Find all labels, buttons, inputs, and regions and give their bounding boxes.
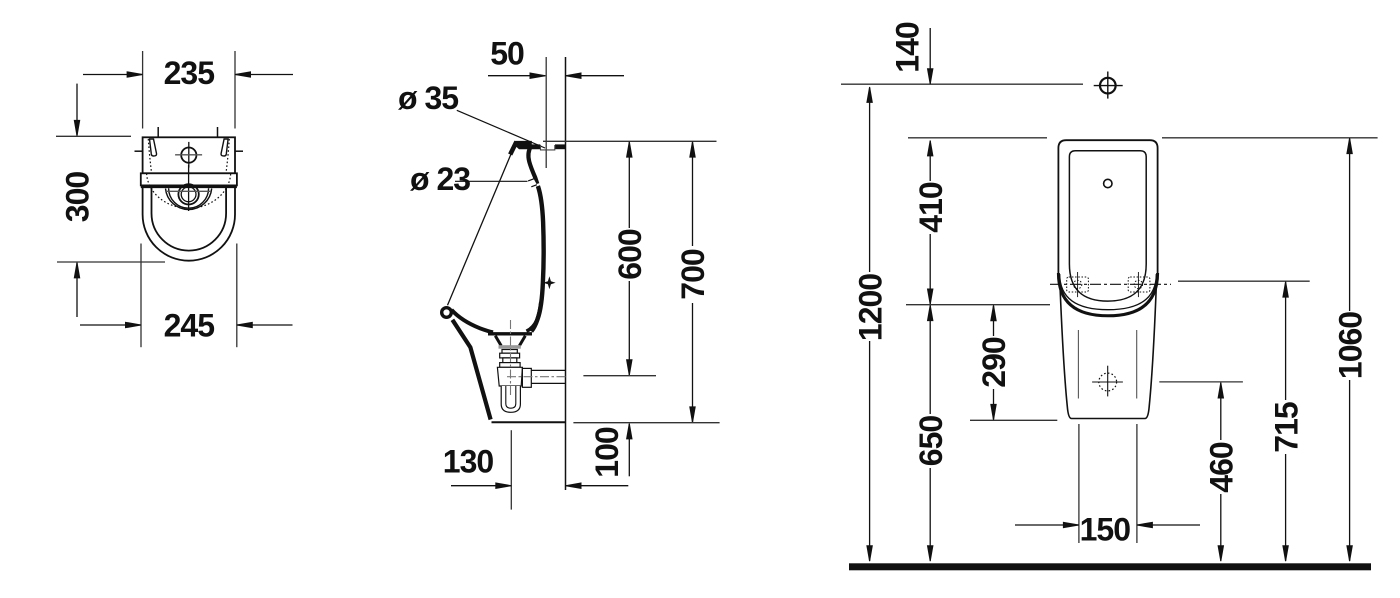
front lip curl xyxy=(442,308,452,318)
leader ø23 xyxy=(455,180,528,182)
inlet circle front xyxy=(1104,179,1112,187)
dim 460 line top + arrow xyxy=(1220,383,1222,440)
dim 130 line left + arrow xyxy=(451,485,511,487)
drain funnel right xyxy=(519,336,525,346)
top view drain outer arc 1 xyxy=(166,189,212,210)
dim 460 ext line xyxy=(1159,381,1243,383)
top reference line xyxy=(543,140,717,142)
hole ø23 outline xyxy=(528,179,537,187)
svg-text:100: 100 xyxy=(589,427,625,478)
hole ø23 white gap xyxy=(528,179,537,187)
dim 410 line top + arrow xyxy=(929,141,931,181)
svg-text:130: 130 xyxy=(443,444,494,480)
top view tank tick left xyxy=(157,127,159,145)
top view drain cross v xyxy=(188,165,190,211)
dim 50 line left + arrow xyxy=(488,75,545,77)
top view drain cross h xyxy=(166,190,211,192)
dim 715 line bottom + arrow xyxy=(1285,454,1287,561)
svg-text:650: 650 xyxy=(913,416,949,467)
top view rim band lower edge xyxy=(141,186,237,189)
svg-text:ø 35: ø 35 xyxy=(398,80,458,116)
rim outer arc thick xyxy=(1058,273,1157,316)
dim 1200 line bottom + arrow xyxy=(869,341,871,561)
svg-text:460: 460 xyxy=(1204,442,1240,493)
wall line xyxy=(565,57,567,490)
dim 290 line bottom + arrow xyxy=(993,389,995,419)
rim inner arc xyxy=(1060,274,1157,310)
dim 245 ext line right xyxy=(236,244,238,348)
top view bowl inner xyxy=(152,188,227,251)
outlet cross h xyxy=(1092,381,1123,383)
outlet pipe xyxy=(531,370,565,383)
dim 150 line left + arrow xyxy=(1015,524,1078,526)
top view lug left xyxy=(150,139,157,156)
inner bowl right xyxy=(527,302,541,331)
dim 140 line + arrow xyxy=(929,28,931,84)
dim 300 line bottom + arrow xyxy=(76,263,78,317)
basin inner outline xyxy=(1069,151,1146,301)
top ext line left xyxy=(908,137,1047,139)
svg-text:600: 600 xyxy=(612,229,648,280)
tailpipe inner xyxy=(506,386,516,408)
top view tank body xyxy=(143,137,235,173)
top view bowl outer xyxy=(143,188,235,261)
supply circle-cross xyxy=(1100,78,1116,94)
profile top bar left with step xyxy=(515,141,540,149)
fixing hole left cross v xyxy=(1077,272,1079,297)
top view lug right xyxy=(221,139,228,156)
profile top bar right xyxy=(555,144,566,149)
dim 235 ext line left xyxy=(142,51,144,129)
profile inner back curve xyxy=(528,146,537,184)
pedestal face line left xyxy=(1077,330,1079,399)
dim 300 ext line top xyxy=(56,135,131,137)
svg-text:235: 235 xyxy=(164,55,215,91)
trap ring 2 xyxy=(503,358,517,363)
top view drain circle inner xyxy=(181,187,196,202)
svg-text:300: 300 xyxy=(60,172,96,223)
top view side tick right xyxy=(229,150,243,152)
inlet recess outline xyxy=(541,145,555,150)
dim 600 line bottom + arrow xyxy=(628,281,630,375)
top view side tick left xyxy=(135,150,149,152)
trap centerline vertical xyxy=(510,320,512,397)
top view lug dotted right xyxy=(223,139,230,186)
dim 50 ext line xyxy=(545,57,547,168)
bottom line xyxy=(492,421,566,423)
dim 290 line top + arrow xyxy=(993,306,995,336)
outlet cross v xyxy=(1107,366,1109,397)
top view lug dotted left xyxy=(148,139,155,186)
dim 130 ext line xyxy=(510,430,512,509)
svg-text:140: 140 xyxy=(890,22,926,73)
top view drain outer arc 2 xyxy=(169,188,209,208)
supply reference line xyxy=(841,83,1083,85)
tailpipe xyxy=(501,386,520,412)
dim 1200 line top + arrow xyxy=(869,88,871,272)
dim 715 ext line xyxy=(1178,280,1310,282)
dim 1060 line bottom + arrow xyxy=(1349,380,1351,561)
leader ø35 xyxy=(457,110,545,148)
floor line xyxy=(849,563,1371,570)
dim 1060 line top + arrow xyxy=(1349,139,1351,311)
top view inlet cross v xyxy=(188,142,190,168)
dim 150 line right + arrow xyxy=(1137,524,1200,526)
outer shell line xyxy=(452,320,490,420)
top view inlet circle xyxy=(181,148,196,163)
trap ring 1 xyxy=(502,350,517,354)
fixing cross mark xyxy=(543,276,555,289)
fixing hole left square xyxy=(1067,277,1089,292)
svg-text:1060: 1060 xyxy=(1332,312,1368,379)
svg-text:150: 150 xyxy=(1080,512,1131,548)
profile back peak leg xyxy=(510,142,516,155)
svg-text:245: 245 xyxy=(164,308,215,344)
inner bowl left xyxy=(452,310,494,333)
top view hidden bowl arc xyxy=(147,174,231,209)
dim 130 line right + arrow xyxy=(566,485,628,487)
dim 150 ext line right xyxy=(1136,424,1138,543)
svg-text:1200: 1200 xyxy=(852,274,888,341)
body outline xyxy=(1058,140,1157,316)
outlet collar xyxy=(522,368,531,387)
dim 100 line + arrow xyxy=(628,424,630,476)
dim 600 ext line xyxy=(583,375,656,377)
dim 300 line top + arrow xyxy=(76,84,78,135)
dim 460 line bottom + arrow xyxy=(1220,494,1222,561)
top view tank tick right xyxy=(217,127,219,145)
trap nut 2 xyxy=(500,363,520,368)
trap nut 1 xyxy=(500,353,520,358)
trap cup xyxy=(497,367,522,386)
dim 650 line bottom + arrow xyxy=(929,468,931,561)
svg-text:410: 410 xyxy=(913,182,949,233)
top view inlet cross h xyxy=(175,154,202,156)
dim 50 line right + arrow xyxy=(566,75,624,77)
profile front curve lower xyxy=(531,186,543,331)
svg-text:715: 715 xyxy=(1268,402,1304,453)
top view drain circle outer xyxy=(178,184,198,204)
pedestal face line right xyxy=(1136,330,1138,399)
dim 245 ext line left xyxy=(140,244,142,348)
mid ext line xyxy=(906,304,1050,306)
dim 150 ext line left xyxy=(1078,424,1080,543)
dim 245 line left + arrow xyxy=(80,324,141,326)
dim 700 ext line xyxy=(573,422,719,424)
svg-text:700: 700 xyxy=(675,249,711,300)
dim 650 line top + arrow xyxy=(929,306,931,414)
pedestal body xyxy=(1060,286,1156,419)
fixing hole right square xyxy=(1128,277,1150,292)
dim 700 line bottom + arrow xyxy=(692,303,694,422)
trap flange gray xyxy=(499,345,521,349)
drain funnel top xyxy=(488,332,532,335)
fixing hole left circle xyxy=(1073,280,1081,288)
top view rim band xyxy=(141,173,237,185)
dim 700 line top + arrow xyxy=(692,142,694,246)
dim 290 ext line bottom xyxy=(970,419,1057,421)
dim 235 ext line right xyxy=(234,51,236,129)
fixing holes centerline xyxy=(1050,283,1171,285)
drain funnel left xyxy=(495,336,501,346)
outlet centerline horizontal xyxy=(507,376,566,378)
dim 235 line left + arrow xyxy=(83,74,142,76)
dim 245 line right + arrow xyxy=(237,324,292,326)
top ext line right xyxy=(1162,137,1378,139)
fixing hole right circle xyxy=(1134,280,1142,288)
fixing hole right cross v xyxy=(1137,272,1139,297)
outlet hidden circle xyxy=(1099,373,1117,391)
svg-text:50: 50 xyxy=(490,36,524,72)
dim 715 line top + arrow xyxy=(1285,282,1287,400)
dim 600 line top + arrow xyxy=(628,142,630,228)
svg-text:290: 290 xyxy=(976,337,1012,388)
dim 300 ext line bottom xyxy=(57,261,165,263)
dim 410 line bottom + arrow xyxy=(929,234,931,304)
rim edge diagonal xyxy=(448,150,513,305)
dim 235 line right + arrow xyxy=(236,74,293,76)
svg-text:ø 23: ø 23 xyxy=(410,161,470,197)
